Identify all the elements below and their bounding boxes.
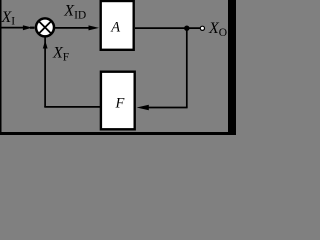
summing junction (circle with X) (36, 18, 54, 36)
frame right bar (228, 0, 236, 135)
frame left bar (0, 0, 2, 135)
wire: input X_I to summing junction (2, 27, 28, 29)
arrowhead into summing junction (23, 25, 32, 30)
output terminal (open circle) X_O (200, 26, 204, 30)
block F (101, 72, 135, 130)
node (junction dot) (184, 26, 189, 31)
arrowhead up into summing junction (43, 41, 48, 49)
wire: left feedback vertical up to summing junction (44, 37, 46, 108)
wire: block F output to left feedback corner (44, 106, 100, 108)
wire: right feedback horizontal into block F (147, 107, 188, 109)
arrowhead into block F (137, 105, 149, 110)
wire: block A to output node (135, 27, 200, 29)
frame bottom bar (0, 132, 236, 135)
block A (101, 1, 134, 50)
arrow tip stub at summing junction (30, 27, 35, 29)
svg-text:F: F (115, 96, 125, 112)
arrowhead into block A (89, 25, 100, 30)
svg-text:A: A (110, 20, 120, 36)
wire: summing junction to block A (55, 27, 92, 29)
wire: node down (right feedback vertical) (186, 28, 188, 107)
